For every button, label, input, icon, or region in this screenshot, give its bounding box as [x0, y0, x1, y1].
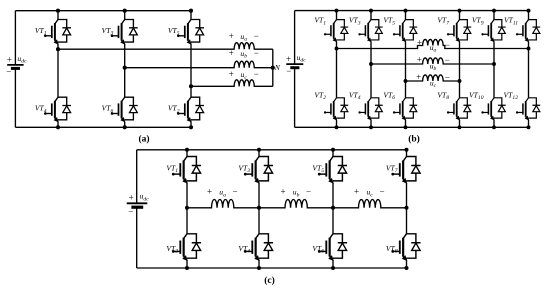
wire: b-leg1 collector drop [336, 11, 338, 20]
svg-text:−: − [379, 187, 384, 197]
wire: dc bus left vertical (bottom half) [294, 68, 296, 128]
node: b-leg4 top junction [458, 9, 462, 13]
svg-text:+: + [229, 48, 234, 58]
wire: leg 1 emitter drop [57, 122, 59, 128]
transistor VT10 (IGBT with freewheeling diode) [481, 98, 505, 120]
wire: b-leg3 middle vertical [405, 42, 407, 98]
wire: leg 3 middle vertical [190, 44, 192, 97]
svg-text:+: + [280, 187, 285, 197]
svg-text:−: − [286, 66, 291, 76]
wire: c-leg2 collector drop [258, 150, 260, 157]
transistor VT3 (IGBT with freewheeling diode) [111, 20, 138, 45]
wire: leg 2 emitter drop [124, 122, 126, 128]
transistor VT6 (IGBT with freewheeling diode) [393, 98, 417, 120]
node: b-leg4 phase-c junction [458, 79, 462, 83]
node N junction [271, 66, 275, 70]
transistor VT5 (IGBT with freewheeling diode) [318, 157, 347, 183]
node: b-leg6 phase-a junction [527, 47, 531, 51]
node: leg2 top rail junction [123, 9, 127, 13]
wire: b-leg6 collector drop [528, 11, 530, 20]
node: c-leg1 top junction [185, 148, 189, 152]
wire + inductor u_a: phase a line with winding [58, 43, 273, 49]
wire: neutral vertical N [272, 49, 274, 86]
node: leg1 bottom rail junction [56, 125, 60, 129]
wire: dc bus left vertical (top half) [136, 150, 138, 204]
node: c-leg2 top junction [257, 148, 261, 152]
node: b-leg1 top junction [335, 9, 339, 13]
wire: top dc rail [15, 10, 191, 12]
node: leg3 top rail junction [189, 9, 193, 13]
wire: top dc rail [137, 149, 407, 151]
transistor VT5 (IGBT with freewheeling diode) [393, 20, 417, 42]
wire: top dc rail [295, 10, 529, 12]
wire: b-leg1 emitter drop [336, 120, 338, 127]
node: b-leg5 bottom junction [492, 125, 496, 129]
node: c-leg4 top junction [405, 148, 409, 152]
battery u_dc: long plate [7, 64, 23, 66]
transistor VT6 (IGBT with freewheeling diode) [318, 234, 347, 260]
node: leg3 phase-c junction [189, 84, 193, 88]
wire: b-leg5 middle vertical [493, 42, 495, 98]
wire: b-leg5 emitter drop [493, 120, 495, 127]
battery u_dc: long plate [127, 202, 148, 204]
wire + inductor u_c: phase c link (leg3 to leg4) [406, 75, 460, 81]
wire: b-leg2 emitter drop [370, 120, 372, 127]
node: b-leg3 phase-c junction [404, 79, 408, 83]
node: leg1 top rail junction [56, 9, 60, 13]
node: b-leg2 top junction [369, 9, 373, 13]
svg-text:−: − [306, 187, 311, 197]
wire: bottom dc rail [15, 126, 191, 128]
transistor VT8 (IGBT with freewheeling diode) [391, 234, 420, 260]
wire: dc bus left vertical (top half) [294, 11, 296, 65]
svg-text:−: − [445, 40, 450, 50]
node: c-leg2 phase junction [257, 206, 261, 210]
battery u_dc: short plate [11, 67, 20, 70]
svg-text:+: + [416, 72, 421, 82]
transistor VT5 (IGBT with freewheeling diode) [177, 20, 204, 45]
node: leg2 phase-b junction [123, 66, 127, 70]
transistor VT7 (IGBT with freewheeling diode) [391, 157, 420, 183]
wire: dc bus left vertical (bottom half) [14, 68, 16, 127]
wire: c-leg4 collector drop [406, 150, 408, 157]
transistor VT4 (IGBT with freewheeling diode) [358, 98, 382, 120]
battery u_dc: short plate [290, 66, 299, 69]
transistor VT12 (IGBT with freewheeling diode) [516, 98, 540, 120]
node: b-leg2 phase-b junction [369, 62, 373, 66]
node: c-leg4 phase junction [405, 206, 409, 210]
svg-text:+: + [417, 55, 422, 65]
wire + inductor u_b: phase b line with winding [125, 61, 273, 67]
svg-text:+: + [286, 54, 291, 64]
transistor VT4 (IGBT with freewheeling diode) [44, 97, 71, 122]
wire: b-leg3 emitter drop [405, 120, 407, 127]
node: c-leg3 bottom junction [331, 266, 335, 270]
transistor VT1 (IGBT with freewheeling diode) [324, 20, 348, 42]
node: leg2 bottom rail junction [123, 125, 127, 129]
wire: bottom dc rail [295, 126, 529, 128]
svg-text:−: − [128, 206, 133, 216]
node: b-leg6 top junction [527, 9, 531, 13]
wire + inductor u_b: phase b link (leg2 to leg5) [371, 58, 494, 64]
node: c-leg3 top junction [331, 148, 335, 152]
node: b-leg3 top junction [404, 9, 408, 13]
transistor VT1 (IGBT with freewheeling diode) [172, 157, 201, 183]
wire: c-leg1 collector drop [186, 150, 188, 157]
battery u_dc: short plate [131, 206, 143, 209]
wire: c-leg1 emitter drop [186, 260, 188, 268]
node: b-leg4 bottom junction [458, 125, 462, 129]
wire: leg 1 collector drop [57, 11, 59, 20]
wire: b-leg2 collector drop [370, 11, 372, 20]
battery u_dc: long plate [286, 63, 303, 65]
svg-text:(a): (a) [138, 133, 149, 144]
svg-text:−: − [445, 72, 450, 82]
transistor VT8 (IGBT with freewheeling diode) [447, 98, 471, 120]
wire: c-leg3 middle vertical [332, 183, 334, 234]
transistor VT2 (IGBT with freewheeling diode) [172, 234, 201, 260]
wire: leg 2 collector drop [124, 11, 126, 20]
transistor VT3 (IGBT with freewheeling diode) [358, 20, 382, 42]
wire: b-leg4 middle vertical [459, 42, 461, 98]
transistor VT9 (IGBT with freewheeling diode) [481, 20, 505, 42]
wire: b-leg4 emitter drop [459, 120, 461, 127]
svg-text:−: − [232, 187, 237, 197]
transistor VT3 (IGBT with freewheeling diode) [244, 157, 273, 183]
wire: leg 1 middle vertical [57, 44, 59, 97]
svg-text:(b): (b) [408, 133, 420, 144]
node: b-leg1 bottom junction [335, 125, 339, 129]
svg-text:+: + [7, 55, 12, 65]
transistor VT11 (IGBT with freewheeling diode) [516, 20, 540, 42]
svg-text:−: − [254, 48, 259, 58]
wire: bottom dc rail [137, 267, 407, 269]
wire: b-leg4 collector drop [459, 11, 461, 20]
node: b-leg5 phase-b junction [492, 62, 496, 66]
wire: c-leg3 collector drop [332, 150, 334, 157]
wire: b-leg3 collector drop [405, 11, 407, 20]
svg-text:+: + [229, 69, 234, 79]
svg-text:−: − [254, 31, 259, 41]
wire: leg 2 middle vertical [124, 44, 126, 97]
node: leg3 bottom rail junction [189, 125, 193, 129]
wire: leg 3 emitter drop [190, 122, 192, 128]
node: c-leg2 bottom junction [257, 266, 261, 270]
wire: c-leg2 middle vertical [258, 183, 260, 234]
svg-text:+: + [354, 187, 359, 197]
node: b-leg2 bottom junction [369, 125, 373, 129]
wire: b-leg5 collector drop [493, 11, 495, 20]
wire: dc bus left vertical (top half) [14, 11, 16, 65]
wire + inductor u_a: phase a link (leg1 to leg6) [337, 39, 529, 48]
wire: b-leg1 middle vertical [336, 42, 338, 98]
wire: leg 3 collector drop [190, 11, 192, 20]
wire: phase link line with three windings [187, 200, 407, 208]
svg-text:+: + [207, 187, 212, 197]
wire: b-leg6 emitter drop [528, 120, 530, 127]
wire: c-leg3 emitter drop [332, 260, 334, 268]
wire: c-leg2 emitter drop [258, 260, 260, 268]
node: b-leg5 top junction [492, 9, 496, 13]
wire: b-leg2 middle vertical [370, 42, 372, 98]
transistor VT7 (IGBT with freewheeling diode) [447, 20, 471, 42]
wire: c-leg1 middle vertical [186, 183, 188, 234]
svg-text:(c): (c) [264, 275, 275, 286]
wire + inductor u_c: phase c line with winding [191, 80, 273, 86]
svg-text:+: + [129, 192, 134, 202]
node: b-leg1 phase-a junction [335, 47, 339, 51]
svg-text:−: − [254, 69, 259, 79]
node: b-leg3 bottom junction [404, 125, 408, 129]
svg-text:+: + [229, 31, 234, 41]
node: c-leg4 bottom junction [405, 266, 409, 270]
svg-text:−: − [445, 55, 450, 65]
transistor VT2 (IGBT with freewheeling diode) [177, 97, 204, 122]
node: c-leg1 phase junction [185, 206, 189, 210]
transistor VT1 (IGBT with freewheeling diode) [44, 20, 71, 45]
wire: b-leg6 middle vertical [528, 42, 530, 98]
svg-text:+: + [417, 38, 422, 48]
transistor VT6 (IGBT with freewheeling diode) [111, 97, 138, 122]
node: c-leg3 phase junction [331, 206, 335, 210]
wire: c-leg4 middle vertical [406, 183, 408, 234]
svg-text:−: − [6, 66, 11, 76]
node: c-leg1 bottom junction [185, 266, 189, 270]
node: b-leg6 bottom junction [527, 125, 531, 129]
transistor VT4 (IGBT with freewheeling diode) [244, 234, 273, 260]
svg-text:N: N [274, 63, 281, 72]
node: leg1 phase-a junction [56, 47, 60, 51]
wire: c-leg4 emitter drop [406, 260, 408, 268]
transistor VT2 (IGBT with freewheeling diode) [324, 98, 348, 120]
wire: dc bus left vertical (bottom half) [136, 207, 138, 268]
